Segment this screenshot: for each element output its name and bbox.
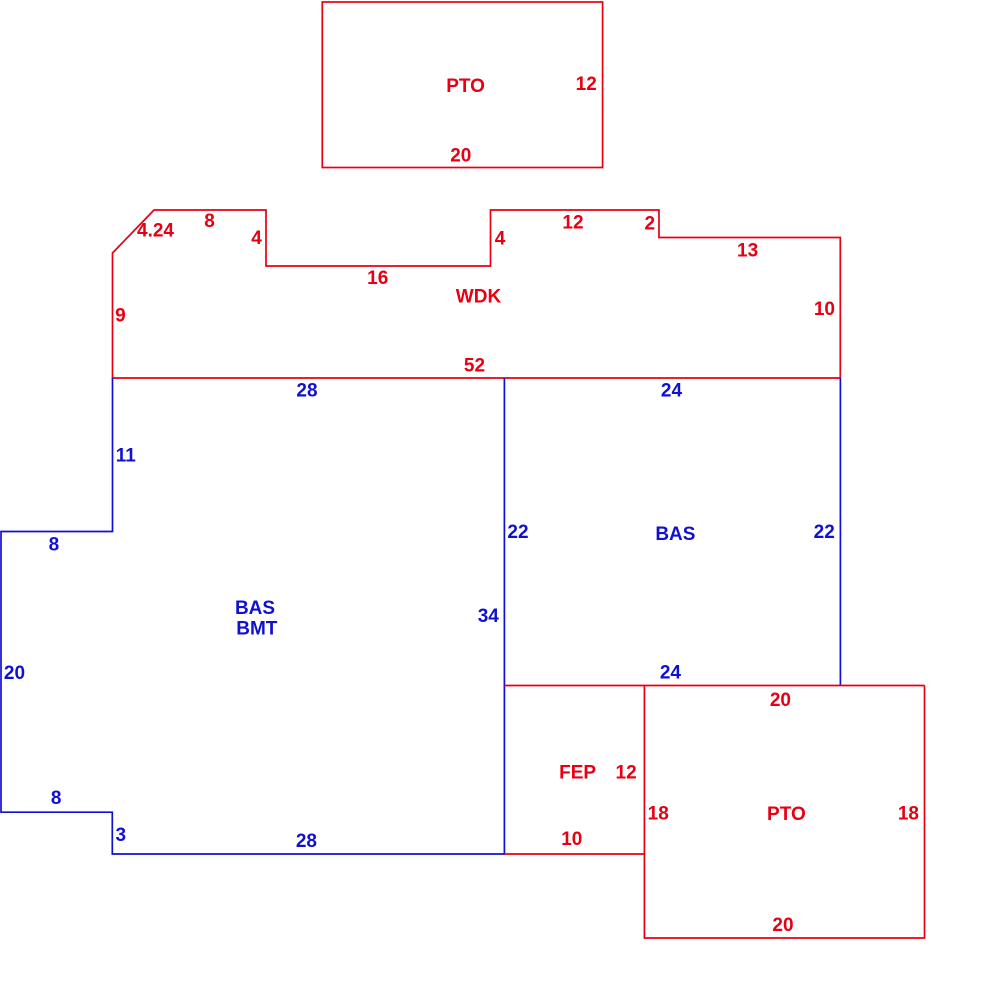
svg-text:2: 2 — [645, 214, 656, 235]
room outline BAS BMT (left basement polyline) — [1, 378, 504, 854]
svg-text:4: 4 — [495, 229, 506, 250]
svg-text:8: 8 — [51, 788, 62, 809]
svg-text:24: 24 — [660, 663, 682, 684]
svg-text:20: 20 — [450, 146, 471, 167]
svg-text:34: 34 — [478, 606, 500, 627]
svg-text:PTO: PTO — [446, 76, 485, 97]
room outline PTO (bottom patio) — [644, 686, 924, 939]
svg-text:9: 9 — [115, 306, 126, 327]
svg-text:BAS: BAS — [235, 598, 275, 619]
svg-text:16: 16 — [367, 268, 388, 289]
svg-text:12: 12 — [562, 213, 583, 234]
wall BAS right east side — [839, 378, 841, 686]
wall FEP bottom — [504, 853, 644, 855]
svg-text:3: 3 — [116, 825, 127, 846]
svg-text:20: 20 — [4, 663, 25, 684]
svg-text:12: 12 — [576, 74, 597, 95]
svg-text:4.24: 4.24 — [137, 221, 174, 242]
svg-text:18: 18 — [648, 804, 669, 825]
svg-text:20: 20 — [770, 690, 791, 711]
room outline WDK (wood deck) — [113, 210, 841, 378]
svg-text:8: 8 — [204, 211, 215, 232]
svg-text:28: 28 — [296, 831, 317, 852]
svg-text:22: 22 — [507, 522, 528, 543]
svg-text:22: 22 — [814, 522, 835, 543]
svg-text:WDK: WDK — [456, 287, 502, 308]
svg-text:20: 20 — [772, 915, 793, 936]
svg-text:10: 10 — [561, 829, 582, 850]
room outline PTO (top patio) — [322, 2, 602, 168]
svg-text:13: 13 — [737, 241, 758, 262]
svg-text:11: 11 — [116, 446, 137, 467]
svg-text:18: 18 — [898, 804, 919, 825]
svg-text:BMT: BMT — [236, 619, 278, 640]
svg-text:8: 8 — [49, 535, 60, 556]
svg-text:BAS: BAS — [655, 524, 695, 545]
svg-text:PTO: PTO — [767, 804, 806, 825]
wall FEP and PTO top — [504, 685, 924, 687]
svg-text:10: 10 — [814, 299, 835, 320]
svg-text:24: 24 — [661, 381, 683, 402]
svg-text:4: 4 — [251, 228, 262, 249]
svg-text:28: 28 — [296, 381, 317, 402]
svg-text:FEP: FEP — [559, 763, 596, 784]
svg-text:52: 52 — [464, 356, 485, 377]
svg-text:12: 12 — [616, 763, 637, 784]
